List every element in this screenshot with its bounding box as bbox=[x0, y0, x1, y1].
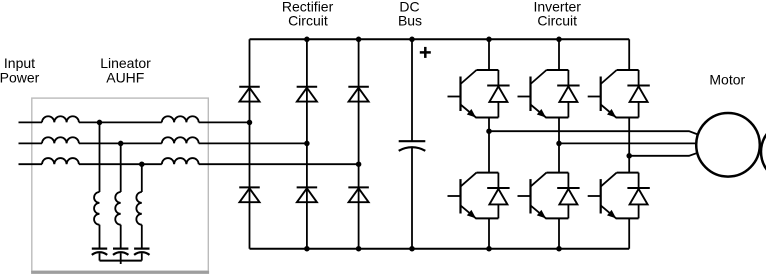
svg-text:Circuit: Circuit bbox=[288, 13, 328, 29]
wire phase 2 mid segment bbox=[79, 142, 162, 144]
wire coil 2 to capacitor bbox=[120, 225, 122, 249]
diode D3 (rectifier top) bbox=[348, 87, 369, 102]
node phase W output bbox=[626, 153, 632, 159]
transistor Q1 (IGBT top leg 1) bbox=[448, 70, 499, 118]
diode D5 (rectifier bottom) bbox=[297, 187, 318, 202]
inductor L4 (right coil phase 1) bbox=[162, 116, 199, 122]
transistor Q2 (IGBT top leg 2) bbox=[518, 70, 569, 118]
wire phase U to motor bbox=[489, 131, 698, 134]
inductor L6 (right coil phase 3) bbox=[162, 158, 199, 164]
capacitor C2 bbox=[113, 249, 128, 255]
wire phase 1 mid segment bbox=[79, 121, 162, 123]
wire DC+ top bus bbox=[250, 38, 630, 40]
inductor L1 (left coil phase 1) bbox=[42, 116, 79, 122]
wire inverter leg 3 to DC- bus bbox=[628, 218, 630, 248]
Lineator AUHF enclosure box bbox=[32, 98, 209, 271]
node rectifier top bus junction 3 bbox=[356, 37, 362, 43]
inductor L5 (right coil phase 2) bbox=[162, 137, 199, 143]
wire inverter leg 2 to DC- bus bbox=[558, 218, 560, 248]
label Lineator AUHF bbox=[100, 55, 151, 85]
node tap phase 3 bbox=[139, 161, 145, 167]
node DC bus cap bottom junction bbox=[409, 246, 415, 252]
wire phase 1 input segment bbox=[19, 121, 43, 123]
wire capacitor C3 to common bbox=[141, 253, 143, 260]
node inverter leg 1 bottom bus junction bbox=[486, 246, 492, 252]
diode D10 (freewheel bottom leg 1) bbox=[487, 188, 509, 204]
inductor L2 (left coil phase 2) bbox=[42, 137, 79, 143]
wire phase 1 to rectifier bbox=[199, 121, 250, 123]
diode D8 (freewheel top leg 2) bbox=[557, 86, 579, 102]
wire tap 3 down bbox=[141, 164, 143, 192]
wire phase V to motor bbox=[559, 142, 696, 144]
motor M1 (circle) bbox=[696, 113, 760, 177]
wire inverter leg 1 midpoint bbox=[488, 118, 490, 173]
wire phase W to motor bbox=[629, 153, 697, 156]
node rectifier phase 3 junction bbox=[356, 161, 362, 167]
node rectifier phase 2 junction bbox=[304, 141, 310, 147]
inductor L3 (left coil phase 3) bbox=[42, 158, 79, 164]
node rectifier bottom bus junction 3 bbox=[356, 246, 362, 252]
wire rectifier leg 3 bbox=[358, 39, 360, 248]
node DC bus cap top junction bbox=[409, 37, 415, 43]
Lineator box bottom shadow edge bbox=[31, 271, 209, 274]
wire inverter leg 3 from DC+ bus bbox=[628, 39, 630, 70]
svg-text:Bus: Bus bbox=[398, 13, 422, 29]
wire phase 2 to rectifier bbox=[199, 142, 307, 144]
node inverter leg 2 bottom bus junction bbox=[556, 246, 562, 252]
wire phase 2 input segment bbox=[19, 142, 43, 144]
node rectifier phase 1 junction bbox=[247, 120, 253, 126]
inductor L7 (shunt coil 1) bbox=[94, 192, 99, 225]
label Inverter Circuit bbox=[533, 0, 581, 29]
wire tap 1 down bbox=[99, 122, 101, 192]
label DC Bus bbox=[398, 0, 422, 29]
node rectifier bottom bus junction 2 bbox=[304, 246, 310, 252]
node inverter leg 1 top bus junction bbox=[486, 37, 492, 43]
wire coil 1 to capacitor bbox=[99, 225, 101, 249]
transistor Q3 (IGBT top leg 3) bbox=[588, 70, 639, 118]
diode D6 (rectifier bottom) bbox=[348, 187, 369, 202]
wire DC cap upper lead bbox=[411, 39, 413, 141]
svg-text:AUHF: AUHF bbox=[106, 69, 144, 85]
wire inverter leg 2 midpoint bbox=[558, 118, 560, 173]
transistor Q5 (IGBT bottom leg 2) bbox=[518, 173, 569, 219]
node tap phase 1 bbox=[97, 120, 103, 126]
transistor Q6 (IGBT bottom leg 3) bbox=[588, 173, 639, 219]
node rectifier top bus junction 2 bbox=[304, 37, 310, 43]
node phase V output bbox=[556, 141, 562, 147]
motor shaft circle (clipped) bbox=[761, 122, 766, 182]
svg-text:Power: Power bbox=[0, 69, 40, 85]
node tap phase 2 bbox=[118, 141, 124, 147]
diode D1 (rectifier top) bbox=[239, 87, 260, 102]
transistor Q4 (IGBT bottom leg 1) bbox=[448, 173, 499, 219]
wire DC cap lower lead bbox=[411, 147, 413, 248]
diode D7 (freewheel top leg 1) bbox=[487, 86, 509, 102]
wire tap 2 down bbox=[120, 143, 122, 192]
wire rectifier leg 1 bbox=[249, 39, 251, 248]
wire center stub below common bbox=[120, 261, 122, 264]
wire phase 3 input segment bbox=[19, 163, 43, 165]
label + (DC bus polarity) bbox=[420, 47, 431, 58]
wire phase 3 to rectifier bbox=[199, 163, 359, 165]
inductor L9 (shunt coil 3) bbox=[136, 192, 141, 225]
wire inverter leg 2 from DC+ bus bbox=[558, 39, 560, 70]
wire coil 3 to capacitor bbox=[141, 225, 143, 249]
inductor L8 (shunt coil 2) bbox=[115, 192, 120, 225]
wire DC- bottom bus bbox=[250, 248, 630, 250]
wire lineator common bus bbox=[100, 260, 142, 262]
capacitor C4 (DC bus) bbox=[399, 141, 426, 151]
diode D9 (freewheel top leg 3) bbox=[627, 86, 649, 102]
diode D11 (freewheel bottom leg 2) bbox=[557, 188, 579, 204]
node inverter leg 2 top bus junction bbox=[556, 37, 562, 43]
diode D4 (rectifier bottom) bbox=[239, 187, 260, 202]
wire inverter leg 1 to DC- bus bbox=[488, 218, 490, 248]
diode D2 (rectifier top) bbox=[297, 87, 318, 102]
label Input Power bbox=[0, 55, 40, 85]
svg-text:Motor: Motor bbox=[709, 72, 745, 88]
diode D12 (freewheel bottom leg 3) bbox=[627, 188, 649, 204]
capacitor C3 bbox=[134, 249, 149, 255]
node phase U output bbox=[486, 128, 492, 134]
wire rectifier leg 2 bbox=[306, 39, 308, 248]
capacitor C1 bbox=[92, 249, 107, 255]
wire phase 3 mid segment bbox=[79, 163, 162, 165]
label Rectifier Circuit bbox=[282, 0, 334, 29]
wire capacitor C1 to common bbox=[99, 253, 101, 260]
wire inverter leg 1 from DC+ bus bbox=[488, 39, 490, 70]
svg-text:Circuit: Circuit bbox=[537, 13, 577, 29]
wire capacitor C2 to common bbox=[120, 253, 122, 260]
wire inverter leg 3 midpoint bbox=[628, 118, 630, 173]
